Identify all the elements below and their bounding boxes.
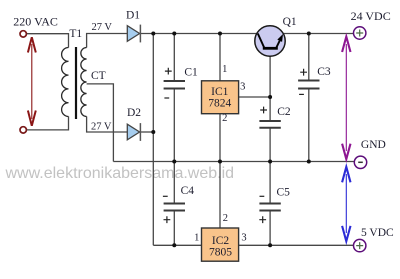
svg-text:GND: GND <box>361 139 386 151</box>
svg-text:C1: C1 <box>184 66 198 78</box>
svg-text:D2: D2 <box>127 107 141 119</box>
svg-text:CT: CT <box>91 70 106 82</box>
svg-text:5 VDC: 5 VDC <box>361 227 394 239</box>
svg-text:2: 2 <box>222 113 227 124</box>
svg-text:C4: C4 <box>181 185 195 197</box>
svg-text:1: 1 <box>194 233 199 244</box>
svg-text:IC2: IC2 <box>212 235 230 247</box>
svg-text:www.elektronikabersama.web.id: www.elektronikabersama.web.id <box>5 165 235 182</box>
svg-text:D1: D1 <box>126 9 140 21</box>
svg-text:24 VDC: 24 VDC <box>351 9 391 23</box>
svg-text:C2: C2 <box>277 106 291 118</box>
svg-text:3: 3 <box>240 81 245 92</box>
svg-text:2: 2 <box>223 213 228 224</box>
svg-text:Q1: Q1 <box>283 16 297 28</box>
svg-text:IC1: IC1 <box>211 86 229 98</box>
svg-text:220 VAC: 220 VAC <box>13 14 58 28</box>
svg-text:3: 3 <box>241 233 246 244</box>
svg-text:1: 1 <box>222 64 227 75</box>
svg-text:C5: C5 <box>277 187 291 199</box>
svg-text:C3: C3 <box>317 66 331 78</box>
svg-text:27 V: 27 V <box>92 22 113 33</box>
svg-text:7805: 7805 <box>209 247 232 259</box>
svg-text:T1: T1 <box>69 28 82 40</box>
svg-text:27 V: 27 V <box>91 122 112 133</box>
svg-text:7824: 7824 <box>208 98 231 110</box>
